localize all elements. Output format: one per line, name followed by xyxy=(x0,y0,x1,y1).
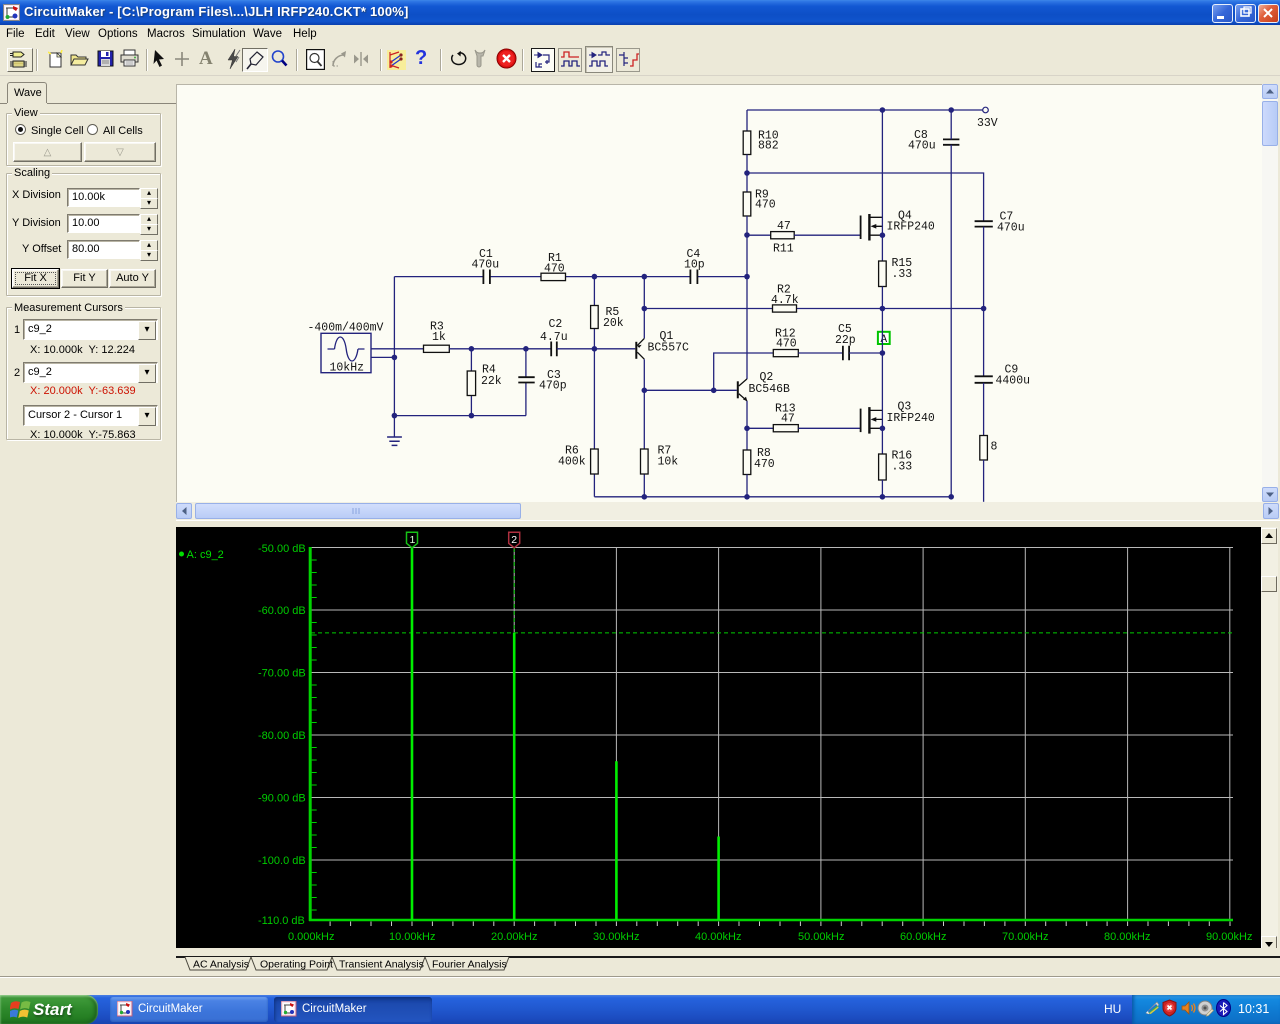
wire C5 to node A xyxy=(849,352,882,354)
wire source negative stub to ground line xyxy=(371,356,394,358)
wire Q4 drain up to rail xyxy=(881,110,883,235)
capacitor C3 xyxy=(518,369,566,393)
wire R13 left lead xyxy=(747,427,773,429)
splitter strip xyxy=(176,520,1280,527)
svg-text:-400m/400mV: -400m/400mV xyxy=(308,322,384,335)
svg-text:R11: R11 xyxy=(773,243,794,256)
ground symbol xyxy=(387,437,402,445)
wire R15 bottom through A to Q3 drain xyxy=(881,287,883,410)
svg-text:470: 470 xyxy=(544,263,565,276)
wire Q1 collector down xyxy=(643,359,645,497)
svg-text:A: A xyxy=(881,334,888,346)
svg-text:-80.00 dB: -80.00 dB xyxy=(258,730,306,742)
svg-text:0.000kHz: 0.000kHz xyxy=(288,931,334,943)
node junction gnd rail / source branch xyxy=(392,413,398,419)
wire Q2 emitter down xyxy=(746,401,748,450)
svg-text:470: 470 xyxy=(755,199,776,212)
cursor 2 dashed line xyxy=(513,548,515,920)
cursor flag 1 xyxy=(407,532,418,548)
wire R2 rail to C9 xyxy=(983,309,985,377)
node junction source-/ground branch xyxy=(392,355,398,361)
svg-text:470p: 470p xyxy=(539,380,567,393)
svg-text:470: 470 xyxy=(776,338,797,351)
wire R16 bottom xyxy=(881,480,883,497)
capacitor C9 xyxy=(975,364,1030,388)
wire vertical source ground branch x394 xyxy=(393,277,395,437)
svg-text:22p: 22p xyxy=(835,334,856,347)
node junction Q1 collector / Q2 base wire xyxy=(642,388,648,394)
resistor R12 xyxy=(773,328,798,357)
svg-text:470u: 470u xyxy=(997,222,1025,235)
capacitor C4 xyxy=(684,248,705,284)
wire from x747 to C7 branch xyxy=(747,173,984,221)
svg-text:8: 8 xyxy=(991,441,998,454)
svg-text:10kHz: 10kHz xyxy=(330,362,365,375)
node junction bottom rail / R16 xyxy=(880,494,886,500)
node junction C4/Q1-emitter rail xyxy=(642,274,648,280)
svg-text:IRFP240: IRFP240 xyxy=(887,412,935,425)
wire R6 branch x594 xyxy=(593,349,595,497)
node junction Q3 source / R13 level xyxy=(880,426,886,432)
wave panel classic scrollbar xyxy=(1261,527,1278,948)
wire bottom rail xyxy=(594,496,951,498)
node junction R10/C7-wire xyxy=(744,170,750,176)
svg-text:A: c9_2: A: c9_2 xyxy=(187,549,224,561)
node junction R2/R15 xyxy=(880,306,886,312)
svg-text:BC546B: BC546B xyxy=(749,383,791,396)
resistor R2 xyxy=(771,284,799,313)
node A label xyxy=(878,332,890,346)
svg-text:-60.00 dB: -60.00 dB xyxy=(258,605,306,617)
resistor R13 xyxy=(773,403,798,432)
svg-text:Fourier Analysis: Fourier Analysis xyxy=(432,959,507,971)
wire load bottom xyxy=(983,460,985,502)
svg-text:4400u: 4400u xyxy=(996,375,1031,388)
Wave tab xyxy=(7,82,47,103)
capacitor C7 xyxy=(975,211,1025,235)
wire R3 to C2 with taps xyxy=(449,348,551,350)
wire source output to R3 xyxy=(371,348,424,350)
node junction Q4 source xyxy=(880,232,886,238)
node junction bottom rail / R8 xyxy=(744,494,750,500)
wire C8 leads xyxy=(950,110,952,497)
svg-text:10.00kHz: 10.00kHz xyxy=(389,931,435,943)
svg-text:C2: C2 xyxy=(549,318,563,331)
mosfet Q4 IRFP240 xyxy=(861,210,935,241)
node junction Q4 drain / top rail xyxy=(880,107,886,113)
svg-text:470u: 470u xyxy=(472,259,500,272)
svg-text:22k: 22k xyxy=(481,375,502,388)
svg-text:33V: 33V xyxy=(977,117,998,130)
svg-text:1: 1 xyxy=(410,534,416,546)
svg-text:Operating Point: Operating Point xyxy=(260,959,333,971)
mosfet Q3 IRFP240 xyxy=(861,401,935,434)
svg-text:47: 47 xyxy=(781,413,795,426)
language indicator xyxy=(1096,995,1132,1024)
svg-text:-110.0 dB: -110.0 dB xyxy=(258,915,305,927)
wire R13 to Q3 gate xyxy=(798,427,860,429)
capacitor C5 xyxy=(835,323,856,360)
wire left supply branch x747 upper xyxy=(746,110,748,131)
svg-text:Transient Analysis: Transient Analysis xyxy=(339,959,424,971)
system tray xyxy=(1132,995,1280,1024)
node junction bottom rail / Q1 branch xyxy=(642,494,648,500)
node 33V terminal xyxy=(977,107,998,130)
svg-text:20k: 20k xyxy=(603,317,624,330)
node junction R3/R4 xyxy=(469,346,475,352)
spectral line 30kHz xyxy=(615,761,618,920)
node junction Q1 emitter / R2 wire xyxy=(642,306,648,312)
svg-text:-100.0 dB: -100.0 dB xyxy=(258,855,306,867)
resistor R8 xyxy=(743,447,775,475)
svg-text:882: 882 xyxy=(758,140,779,153)
svg-text:90.00kHz: 90.00kHz xyxy=(1206,931,1252,943)
resistor R11 xyxy=(771,220,795,256)
svg-text:400k: 400k xyxy=(558,456,586,469)
wire C2 to Q1 base xyxy=(557,348,636,350)
node junction A / output xyxy=(880,350,886,356)
schematic viewport edges xyxy=(176,84,1262,85)
node junction R9/R11 xyxy=(744,232,750,238)
node junction C2/R5/R6 xyxy=(592,346,598,352)
svg-text:-50.00 dB: -50.00 dB xyxy=(258,543,306,555)
svg-text:AC Analysis: AC Analysis xyxy=(193,959,249,971)
resistor R7 xyxy=(641,445,679,475)
wire R11 to Q4 gate xyxy=(794,234,860,236)
resistor R5 xyxy=(591,306,624,330)
spectral line 20kHz xyxy=(513,633,516,920)
node junction C3 top xyxy=(523,346,529,352)
resistor R16 xyxy=(879,450,913,481)
node junction Q2 emitter / R13 xyxy=(744,426,750,432)
trace legend xyxy=(179,549,224,561)
resistor R4 xyxy=(467,364,502,396)
svg-text:50.00kHz: 50.00kHz xyxy=(798,931,844,943)
capacitor C8 xyxy=(908,129,959,153)
Scaling groupbox xyxy=(6,173,161,296)
resistor R6 xyxy=(558,445,598,475)
resistor R1 xyxy=(541,252,566,281)
svg-text:-70.00 dB: -70.00 dB xyxy=(258,668,306,680)
wire C7 bottom to R2 rail xyxy=(983,227,985,309)
svg-text:-90.00 dB: -90.00 dB xyxy=(258,793,306,805)
wire Q1 collector to Q2 base xyxy=(644,389,737,391)
svg-text:60.00kHz: 60.00kHz xyxy=(900,931,946,943)
svg-text:70.00kHz: 70.00kHz xyxy=(1002,931,1048,943)
task buttons xyxy=(110,997,268,1022)
transistor Q1 BC557C xyxy=(635,330,689,359)
wire local ground rail xyxy=(394,415,526,417)
capacitor C2 xyxy=(540,318,568,356)
wire R9 bottom through gate node down to Q2 collector xyxy=(746,216,748,379)
resistor R10 xyxy=(743,130,779,155)
wire R4 branch xyxy=(470,349,472,416)
node junction R12 riser xyxy=(711,388,717,394)
wire Q4 source to R15 xyxy=(881,235,883,261)
wire Q3 channel vertical xyxy=(881,410,883,455)
wire R12 to C5 xyxy=(798,352,842,354)
node junction gnd rail / R4 xyxy=(469,413,475,419)
wire R8 bottom xyxy=(746,475,748,497)
svg-text:10p: 10p xyxy=(684,259,705,272)
Measurement Cursors groupbox xyxy=(6,307,161,440)
svg-text:80.00kHz: 80.00kHz xyxy=(1104,931,1150,943)
start button xyxy=(0,995,98,1024)
svg-text:.33: .33 xyxy=(892,461,913,474)
resistor R15 xyxy=(879,257,913,287)
resistor R9 xyxy=(743,189,776,217)
resistor Rload 8 xyxy=(980,436,998,461)
wire R11 left lead xyxy=(747,234,771,236)
wire Q1 emitter up to rails xyxy=(643,277,645,339)
svg-text:40.00kHz: 40.00kHz xyxy=(695,931,741,943)
measurement dashed level line xyxy=(311,632,1232,634)
node junction top rail / x747 xyxy=(744,274,750,280)
wire R12 riser xyxy=(714,353,774,390)
cursor flag 2 xyxy=(509,532,520,548)
node junction R2/C7/C9 xyxy=(981,306,987,312)
svg-text:2: 2 xyxy=(511,534,517,546)
wire mid rail y276 segments xyxy=(394,276,747,278)
node junction C8 top xyxy=(948,107,954,113)
svg-text:470: 470 xyxy=(754,458,775,471)
svg-text:4.7u: 4.7u xyxy=(540,331,568,344)
node junction bottom rail / C8 xyxy=(948,494,954,500)
resistor R3 xyxy=(424,321,450,353)
voltage source V1 -400m/400mV 10kHz xyxy=(308,322,384,375)
svg-text:47: 47 xyxy=(777,220,791,233)
spectral line 10kHz xyxy=(411,548,414,920)
wire R10 bottom to R9 top xyxy=(746,155,748,193)
spectral line 40kHz xyxy=(717,837,720,921)
svg-text:470u: 470u xyxy=(908,140,936,153)
svg-text:20.00kHz: 20.00kHz xyxy=(491,931,537,943)
wire C9 to load xyxy=(983,383,985,436)
cursor 1 dashed line xyxy=(411,548,413,920)
svg-text:10k: 10k xyxy=(658,456,679,469)
svg-text:4.7k: 4.7k xyxy=(771,294,799,307)
capacitor C1 xyxy=(472,248,500,284)
wire 33V top supply rail xyxy=(747,109,983,111)
svg-text:IRFP240: IRFP240 xyxy=(887,221,935,234)
wire R5 branch x594 xyxy=(593,277,595,349)
wire C3 branch xyxy=(525,349,527,416)
svg-text:30.00kHz: 30.00kHz xyxy=(593,931,639,943)
wire R2 feedback rail xyxy=(644,308,983,310)
node junction R1/R5 xyxy=(592,274,598,280)
transistor Q2 BC546B xyxy=(737,371,790,401)
svg-text:BC557C: BC557C xyxy=(648,342,690,355)
svg-text:1k: 1k xyxy=(432,331,446,344)
svg-text:.33: .33 xyxy=(892,268,913,281)
schematic XP scrollbars xyxy=(1262,84,1278,502)
View groupbox xyxy=(6,113,161,166)
